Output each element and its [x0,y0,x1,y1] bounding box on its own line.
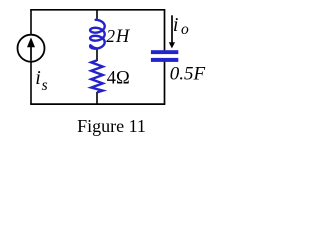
resistor R1 4ohm zigzag [91,60,103,92]
wire top [30,9,165,11]
svg-text:2: 2 [106,26,115,46]
svg-text:s: s [42,77,48,94]
i_o arrow [171,15,173,43]
inductor L1 2H coil [90,20,105,49]
svg-text:H: H [115,27,131,47]
wire right top segment [164,10,166,51]
svg-text:i: i [35,67,41,89]
wire bottom [30,103,165,105]
wire middle branch bottom [96,92,98,104]
svg-text:i: i [173,14,179,36]
wire left bottom segment [30,61,32,104]
svg-text:4Ω: 4Ω [107,68,130,88]
wire middle between L and R [96,48,98,62]
svg-text:0.5F: 0.5F [170,63,206,84]
wire left top segment [30,10,32,36]
svg-text:o: o [181,21,189,38]
svg-text:Figure 11: Figure 11 [77,116,146,136]
current source IS circle [18,35,45,62]
wire middle branch top [96,10,98,21]
current source arrow [30,45,32,61]
capacitor C1 0.5F plates [151,50,178,54]
wire right bottom segment [164,61,166,104]
